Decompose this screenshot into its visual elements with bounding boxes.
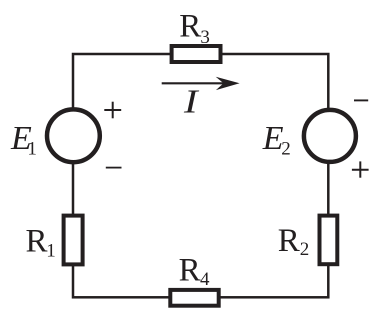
svg-text:R: R bbox=[278, 223, 300, 259]
minus at E2 bbox=[354, 99, 368, 101]
plus at E1 bbox=[104, 102, 121, 119]
svg-text:1: 1 bbox=[46, 241, 56, 262]
svg-text:2: 2 bbox=[281, 139, 291, 160]
resistor R2 bbox=[320, 216, 338, 265]
wire loop (top, right, bottom, left wires) bbox=[73, 54, 328, 297]
svg-text:3: 3 bbox=[200, 27, 210, 48]
resistor R4 bbox=[170, 290, 218, 306]
svg-text:1: 1 bbox=[27, 138, 37, 159]
plus at E2 bbox=[352, 161, 369, 177]
resistor R3 bbox=[172, 46, 221, 62]
svg-text:4: 4 bbox=[200, 269, 210, 290]
source E1 bbox=[47, 109, 100, 162]
svg-text:I: I bbox=[183, 84, 200, 121]
minus at E1 bbox=[106, 167, 122, 169]
svg-text:R: R bbox=[26, 224, 48, 260]
resistor R1 bbox=[64, 216, 83, 265]
svg-text:R: R bbox=[179, 9, 201, 45]
current arrow bbox=[162, 82, 232, 84]
svg-text:R: R bbox=[179, 253, 201, 289]
svg-text:2: 2 bbox=[300, 239, 310, 260]
source E2 bbox=[304, 110, 356, 162]
